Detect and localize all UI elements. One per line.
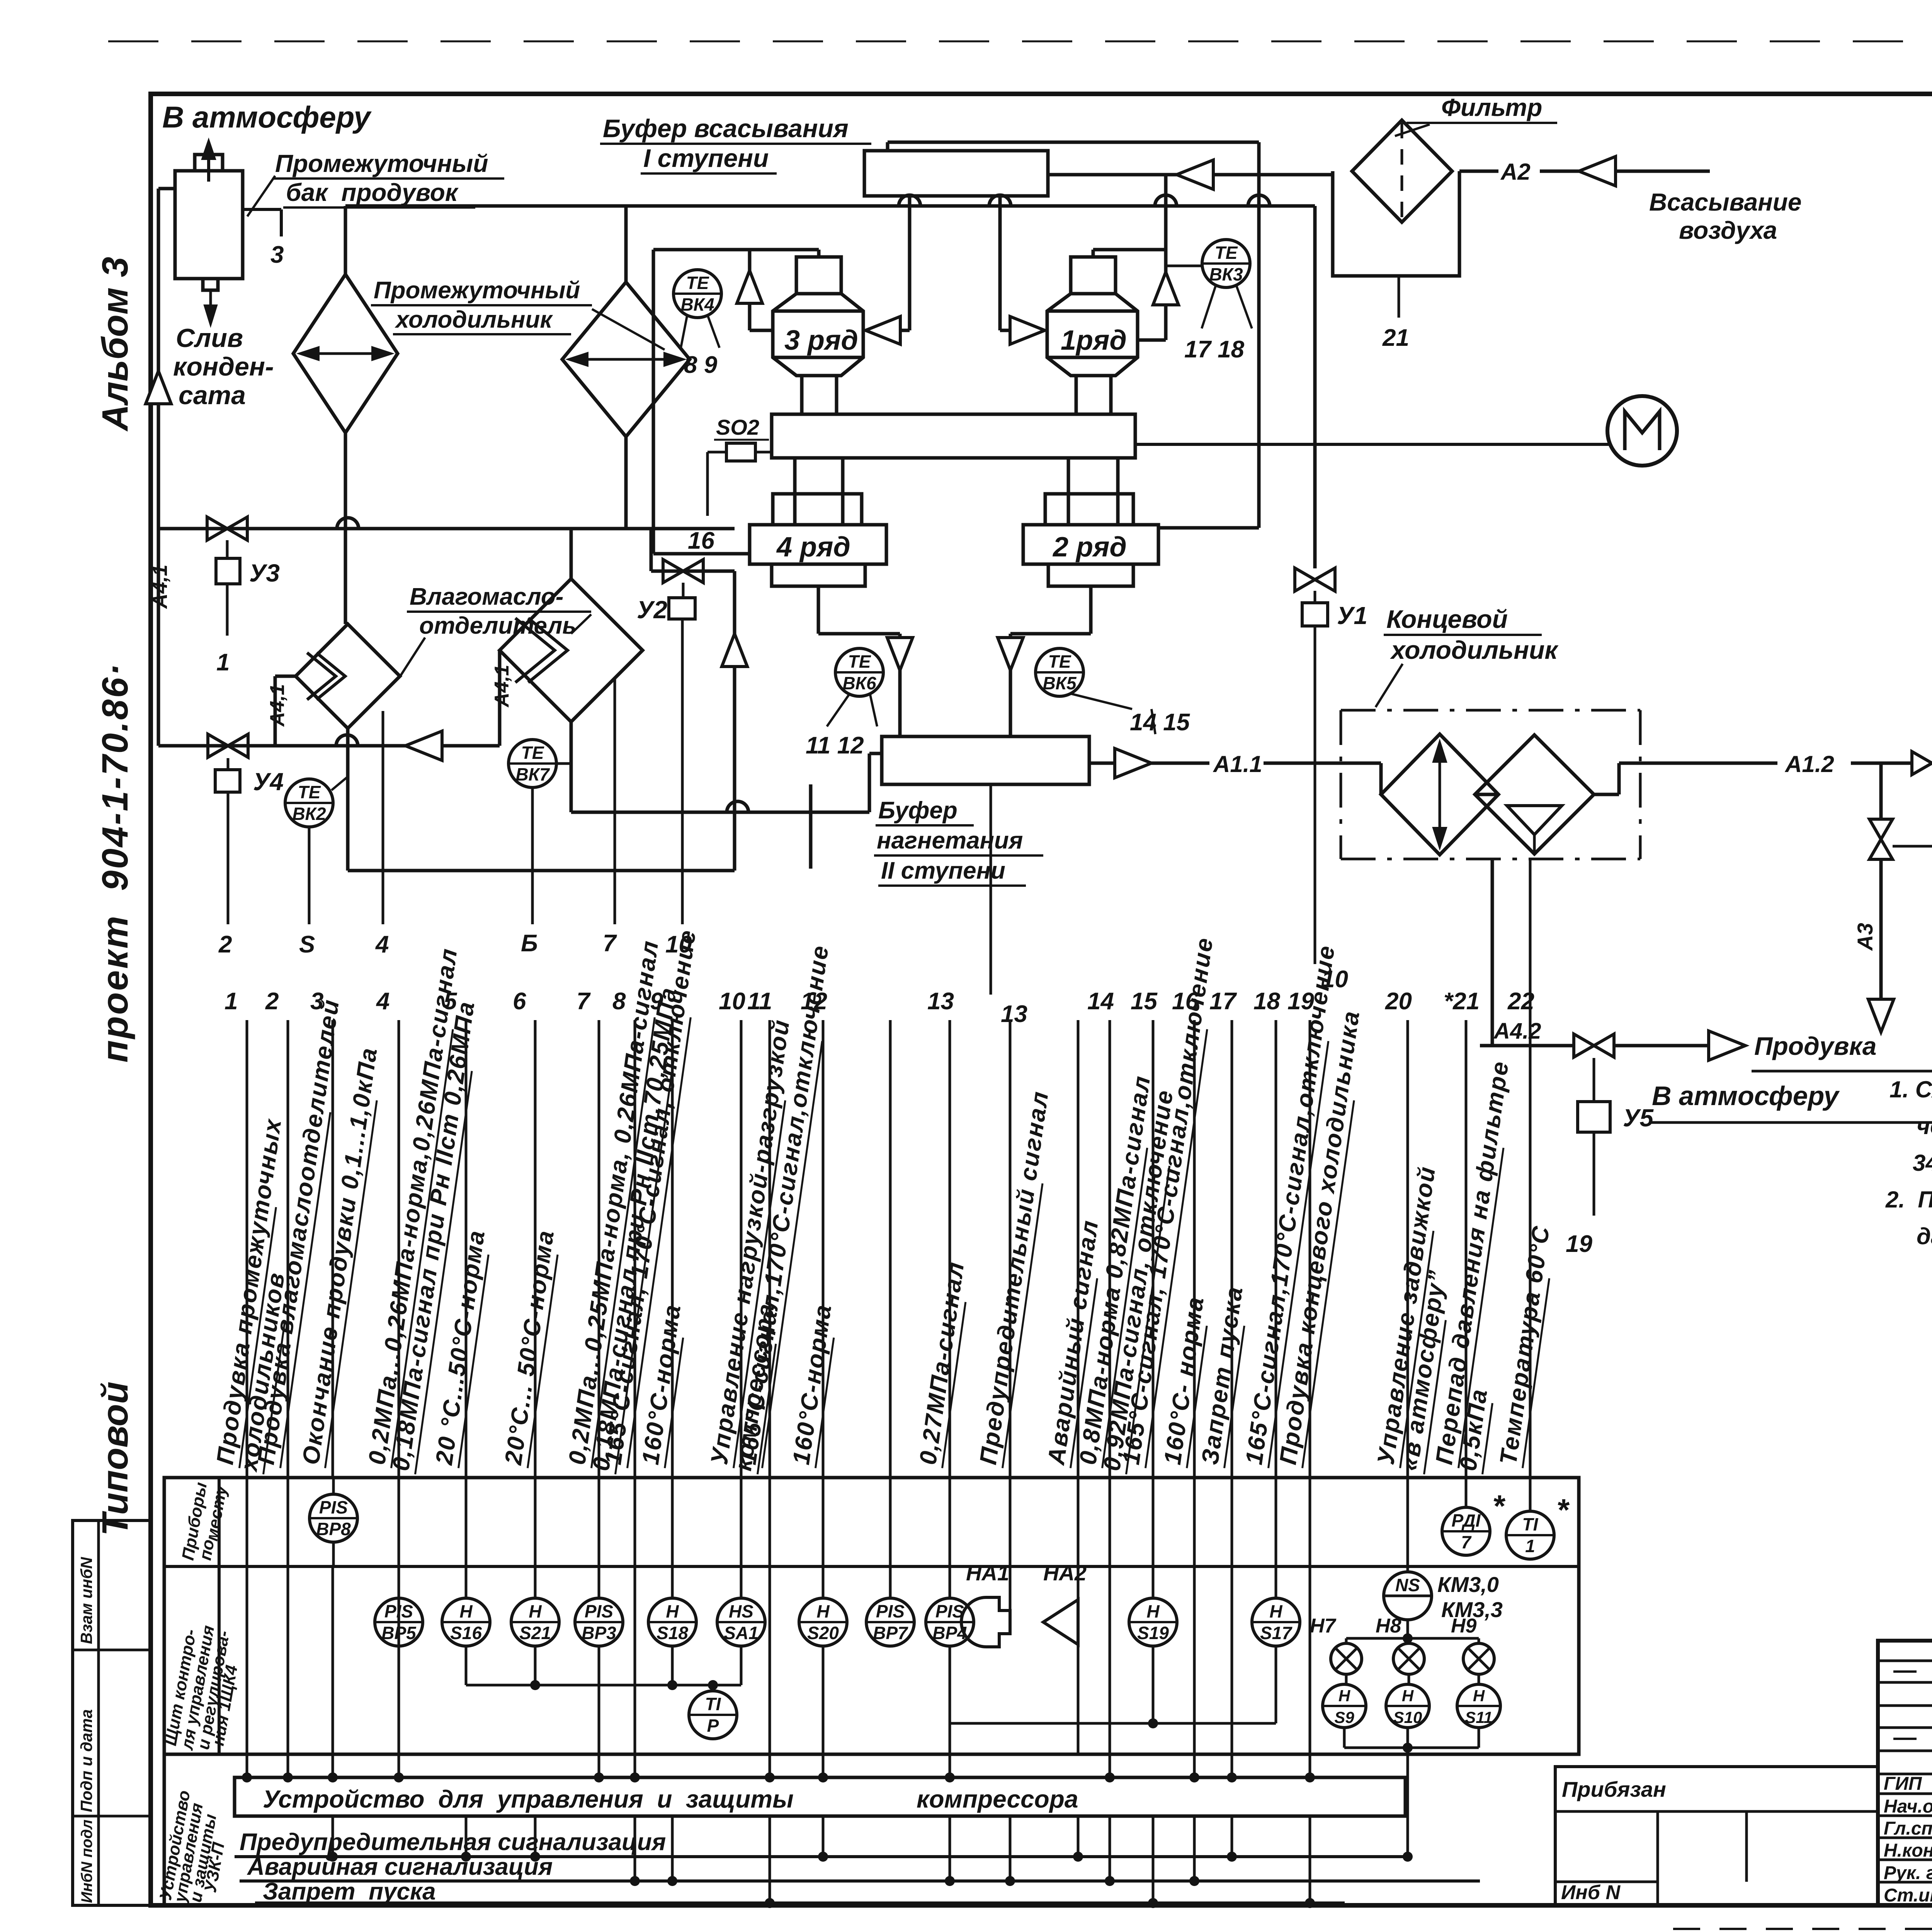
end cooler diamond 2 separator [1475, 735, 1594, 854]
signal column x3091 line [1193, 1020, 1196, 1478]
row2 instrument Н S16 [442, 1598, 490, 1646]
svg-text:ТЕ: ТЕ [686, 273, 709, 293]
wire x3390 to bus [1309, 1816, 1311, 1903]
svg-text:S16: S16 [450, 1623, 482, 1643]
svg-text:II ступени: II ступени [881, 857, 1005, 884]
pipe A4.2 [1480, 1044, 1574, 1048]
svg-text:Р: Р [707, 1716, 719, 1736]
svg-text:S17: S17 [1260, 1623, 1293, 1643]
row1 instrument TI 1 [1506, 1511, 1554, 1559]
valve atmosphere [1869, 819, 1893, 859]
cylinder 4 ryad lower rect [772, 564, 865, 586]
svg-text:Предупредительная сигнализация: Предупредительная сигнализация [240, 1829, 666, 1855]
suction buffer I rect [864, 151, 1048, 196]
svg-text:Буфер: Буфер [878, 797, 957, 824]
II stage suction manifold [345, 204, 1315, 208]
svg-text:Фильтр: Фильтр [1441, 94, 1542, 121]
svg-text:РДI: РДI [1452, 1510, 1481, 1531]
buffer II drain [809, 784, 813, 869]
down arrow left into buffer II [817, 586, 820, 634]
row2 feed VR7 [889, 1020, 892, 1566]
wire x1643 to bus [634, 1816, 636, 1881]
filter signal stub 21 [1398, 276, 1400, 318]
signal column x3390 line [1309, 1020, 1311, 1478]
leader to separator 1 [401, 638, 425, 675]
wire x2130 to bus [822, 1816, 825, 1857]
signal column x3390 label [1274, 1009, 1366, 1468]
svg-text:Инб N: Инб N [1561, 1881, 1621, 1904]
svg-text:SО2: SО2 [716, 415, 759, 439]
actuator box U1 [1302, 603, 1328, 626]
lamp group bottom bus [1343, 1728, 1346, 1748]
title block change rows [1878, 1660, 1932, 1662]
svg-text:ТЕ: ТЕ [1048, 651, 1071, 672]
crosshead guide right [1068, 458, 1118, 525]
air intake pipe [1616, 170, 1710, 173]
button H S9 [1345, 1674, 1348, 1685]
svg-text:Запрет пуска: Запрет пуска [263, 1878, 436, 1905]
row2 instrument Н S21 [511, 1598, 559, 1646]
svg-text:17: 17 [1209, 988, 1237, 1015]
svg-text:17 18: 17 18 [1184, 336, 1245, 363]
row2 instrument РIS ВР7 [866, 1598, 914, 1646]
signal column x1992 line [769, 1020, 771, 1478]
stub line 10 right [1314, 626, 1316, 964]
svg-text:*21: *21 [1444, 988, 1480, 1015]
branch to atmosphere [1879, 763, 1883, 819]
svg-text:бак продувок: бак продувок [286, 179, 459, 206]
svg-text:1. Схема выполнена на: 1. Схема выполнена на основании технолог… [1889, 1077, 1932, 1102]
leader to end cooler [1376, 664, 1403, 707]
svg-text:А1.1: А1.1 [1213, 751, 1262, 777]
signal column x745 label [252, 997, 346, 1468]
check arrow on riser [146, 371, 171, 404]
pipe to produvka arrow [1614, 1044, 1725, 1048]
wire column x745 to device box [287, 1566, 289, 1777]
svg-text:ВР7: ВР7 [873, 1623, 908, 1643]
svg-text:Н: Н [1402, 1687, 1414, 1705]
svg-text:6: 6 [513, 988, 526, 1015]
svg-text:А4,1: А4,1 [266, 684, 289, 727]
discharge buffer II rect [882, 736, 1089, 784]
separator 1 left drain [275, 675, 296, 678]
signal column x1643 label [599, 928, 702, 1468]
svg-text:ТЕ: ТЕ [1215, 243, 1238, 263]
row2 instrument Н S20 [799, 1598, 847, 1646]
wire x2458 to bus [949, 1816, 951, 1881]
thermocouple TE VK6 [835, 648, 883, 696]
cylinder 2 ryad lower rect [1048, 564, 1133, 586]
buffer tap left [908, 196, 912, 330]
lamp bus [1406, 1620, 1409, 1638]
signal column x3188 label [1196, 1284, 1250, 1468]
svg-text:данному проекту.: данному проекту. [1917, 1223, 1932, 1249]
separator 2 left drain [498, 650, 502, 746]
motor pipe [1135, 443, 1609, 446]
svg-text:4: 4 [375, 931, 389, 958]
filter diamond [1352, 120, 1452, 222]
tank Promezhutochny bak produvok [175, 171, 243, 279]
svg-text:21: 21 [1382, 325, 1409, 351]
svg-text:Нач.отд: Нач.отд [1884, 1796, 1932, 1817]
svg-text:ВК5: ВК5 [1043, 673, 1077, 693]
svg-text:НА1: НА1 [966, 1561, 1009, 1585]
wire x3188 to bus [1231, 1816, 1233, 1857]
svg-text:Б: Б [521, 930, 538, 957]
cylinder 3 ryad body [773, 294, 863, 376]
thermocouple TE VK7 [509, 740, 556, 787]
crankcase [772, 414, 1135, 458]
stub line 6 [531, 787, 534, 924]
svg-text:9: 9 [650, 988, 663, 1015]
cylinder 3 ryad top rect [796, 257, 841, 294]
svg-text:Прибязан: Прибязан [1562, 1777, 1666, 1801]
actuator box U2 [669, 598, 695, 619]
instrument TI P [689, 1691, 737, 1739]
cylinder 1 ryad top rect [1071, 257, 1116, 294]
downcomer to 4 ryad [652, 250, 655, 554]
stub line 5 [308, 827, 311, 924]
bus connector left [246, 1765, 248, 1777]
wire x2984 to bus [1152, 1816, 1155, 1903]
svg-text:конден-: конден- [173, 352, 274, 381]
svg-text:*: * [1492, 1489, 1506, 1523]
signal column x2872 label [1074, 1073, 1157, 1468]
svg-text:S10: S10 [1393, 1708, 1422, 1726]
valve U1 [1295, 568, 1335, 591]
signal column x3302 label [1240, 943, 1342, 1468]
thermocouple TE VK3 [1202, 240, 1250, 287]
svg-text:Подп и дата: Подп и дата [77, 1709, 95, 1813]
signal column x3188 line [1231, 1020, 1233, 1478]
row2 instrument Н S17 [1252, 1598, 1300, 1646]
leader to tank [247, 176, 275, 216]
discharge manifold 3 ryad [653, 248, 819, 252]
wire x2614 to bus [1009, 1816, 1012, 1881]
svg-text:КМ3,0: КМ3,0 [1437, 1572, 1499, 1597]
svg-text:Ст.инж.: Ст.инж. [1884, 1885, 1932, 1906]
svg-text:14 15: 14 15 [1130, 709, 1190, 736]
wire column x3390 to device box [1309, 1566, 1311, 1777]
svg-text:холодильник: холодильник [1390, 636, 1559, 664]
valve U2 [663, 560, 703, 583]
svg-text:НS: НS [729, 1601, 753, 1621]
signal column x1918 line [740, 1020, 743, 1478]
svg-text:Н8: Н8 [1376, 1615, 1401, 1637]
wires crossing row1 [246, 1478, 248, 1566]
pressure switch SO2 box [726, 443, 755, 461]
left stamp table [73, 1520, 150, 1905]
signal column x1550 label [563, 938, 665, 1468]
flow arrow A2 [1579, 156, 1616, 186]
thermocouple TE VK5 [1036, 648, 1083, 696]
bus S19 S17 [1152, 1646, 1155, 1723]
signal column x1385 label [500, 1228, 561, 1468]
svg-text:Альбом 3: Альбом 3 [95, 257, 136, 432]
svg-text:11: 11 [747, 988, 772, 1015]
crosshead guide left [795, 458, 843, 525]
SO2 to crankcase [755, 451, 772, 454]
svg-text:16: 16 [688, 527, 714, 554]
svg-text:ВК2: ВК2 [292, 804, 326, 824]
signal column x2130 label [787, 1302, 838, 1468]
end cooler boundary [1341, 709, 1640, 712]
row2 instrument Н S19 [1129, 1598, 1177, 1646]
signal column x1032 line [398, 1020, 400, 1478]
svg-text:I ступени: I ступени [643, 144, 769, 172]
motor M [1607, 396, 1677, 466]
signal column x3643 line [1406, 1020, 1409, 1478]
stub line 22 [1529, 859, 1532, 1020]
signal column x1643 line [634, 1020, 636, 1478]
actuator box U4 [215, 770, 240, 792]
cooler 2 top pipe [624, 206, 628, 282]
signal column x2458 line [949, 1020, 951, 1478]
svg-text:А2: А2 [1500, 159, 1531, 185]
privyazan box [1555, 1767, 1878, 1905]
wire x1992 to bus [769, 1816, 771, 1903]
row2 instrument РIS ВР5 [375, 1598, 423, 1646]
down arrow right into buffer II [1089, 586, 1093, 634]
signal column x861 line [332, 1020, 334, 1478]
riser w arrow 3 ryad [748, 250, 752, 330]
svg-text:Буфер всасывания: Буфер всасывания [603, 114, 849, 143]
row2 instrument РIS ВР3 [575, 1598, 623, 1646]
signal column x3960 line [1529, 1020, 1532, 1478]
svg-text:2 ряд: 2 ряд [1052, 532, 1127, 563]
signal column x3794 line [1465, 1020, 1468, 1478]
stub line 10 left [681, 619, 684, 924]
signal column x3960 label [1495, 1224, 1556, 1468]
wire x2872 to bus [1109, 1816, 1111, 1881]
wire column x1992 to device box [769, 1566, 771, 1777]
table bottom region sides [163, 1754, 166, 1905]
actuator box U5 [1578, 1102, 1610, 1132]
filter inlet pipe [1459, 170, 1498, 173]
cooler 2 Promezhutochny kholodilnik [562, 282, 690, 437]
svg-text:19: 19 [1566, 1231, 1592, 1257]
wire column x1032 to device box [398, 1566, 400, 1777]
button H S10 [1408, 1674, 1410, 1685]
svg-text:4 ряд: 4 ряд [776, 532, 850, 563]
svg-text:S11: S11 [1465, 1708, 1493, 1726]
svg-text:Н: Н [816, 1601, 830, 1621]
svg-text:1ряд: 1ряд [1061, 325, 1127, 356]
valve blowdown [1574, 1034, 1614, 1057]
svg-text:Н: Н [1338, 1687, 1351, 1705]
svg-text:2: 2 [218, 931, 232, 958]
signal column x2614 label [975, 1089, 1055, 1468]
svg-text:4: 4 [376, 988, 389, 1015]
svg-text:А4.2: А4.2 [1493, 1019, 1541, 1044]
svg-text:Н: Н [1269, 1601, 1282, 1621]
svg-text:1: 1 [1525, 1536, 1535, 1556]
svg-text:В атмосферу: В атмосферу [1652, 1081, 1840, 1111]
table row divider 1 [164, 1565, 1579, 1568]
2 ryad discharge riser [1158, 526, 1259, 530]
svg-text:А3: А3 [1853, 923, 1877, 951]
riser w arrow 1 ryad [1164, 175, 1168, 340]
signal column x1550 line [598, 1020, 600, 1478]
signal column x3643 label [1372, 1164, 1442, 1468]
svg-text:10: 10 [719, 988, 745, 1015]
valve U1 riser [1313, 206, 1317, 568]
signal column x1032 label [363, 946, 464, 1468]
actuator box U3 [216, 558, 240, 584]
leaders 17 18 [1202, 286, 1216, 328]
pipe to buffer top [888, 141, 1259, 144]
suction arrow 3 ryad [866, 329, 910, 332]
svg-text:ТI: ТI [1522, 1514, 1539, 1534]
svg-text:3 ряд: 3 ряд [784, 325, 858, 356]
svg-text:Н.контр: Н.контр [1884, 1840, 1932, 1861]
wire column x3091 to device box [1193, 1566, 1196, 1777]
signal column x2984 line [1152, 1020, 1155, 1478]
end cooler inlet [1341, 762, 1381, 765]
svg-text:ИнбN подл: ИнбN подл [78, 1820, 95, 1903]
cylinder 2 ryad top rect [1045, 494, 1133, 525]
svg-text:ТЕ: ТЕ [848, 651, 871, 672]
svg-text:Аварийная сигнализация: Аварийная сигнализация [247, 1854, 553, 1880]
row2 instrument РIS ВР4 [926, 1598, 974, 1646]
SO2 stub [707, 451, 726, 454]
svg-text:А4,1: А4,1 [148, 565, 172, 609]
svg-text:ТЕ: ТЕ [298, 782, 321, 802]
filter housing [1333, 171, 1459, 276]
flow arrow to buffer [1177, 160, 1213, 189]
svg-text:Н: Н [1146, 1601, 1160, 1621]
svg-text:Всасывание: Всасывание [1649, 188, 1801, 216]
wire x1206 to bus [465, 1816, 468, 1857]
svg-text:*: * [1556, 1493, 1570, 1527]
signal column x639 label [211, 1116, 288, 1468]
svg-text:Н: Н [529, 1601, 542, 1621]
svg-text:ВК3: ВК3 [1209, 264, 1243, 284]
wire column x639 to device box [246, 1566, 248, 1777]
separator bottoms collector [346, 728, 350, 871]
svg-text:11 12: 11 12 [806, 732, 864, 759]
stub line 2 [227, 792, 230, 924]
signal column x3794 label [1430, 1059, 1515, 1468]
svg-text:нагнетания: нагнетания [877, 827, 1023, 854]
signal column x3091 label [1159, 1294, 1211, 1468]
cooler 1 bottom pipe [344, 433, 347, 624]
svg-text:22: 22 [1507, 988, 1534, 1015]
svg-text:Рук. гр.: Рук. гр. [1884, 1863, 1932, 1883]
signal column x2984 label [1117, 935, 1220, 1468]
1M1 to valve [1893, 845, 1932, 848]
svg-text:8: 8 [612, 988, 626, 1015]
signal column x2614 line [1009, 1020, 1012, 1478]
svg-text:Концевой: Концевой [1386, 605, 1508, 633]
svg-text:Слив: Слив [176, 323, 243, 353]
wire x2790 to bus [1077, 1816, 1080, 1857]
svg-text:Взам инбN: Взам инбN [77, 1556, 95, 1644]
signal column x1992 label [734, 943, 835, 1468]
end cooler internal pipe [1475, 793, 1498, 796]
signal column x1206 line [465, 1020, 468, 1478]
relay NS [1384, 1572, 1432, 1620]
cooler 1 Promezhutochny kholodilnik [293, 274, 398, 433]
svg-text:ВР3: ВР3 [582, 1623, 616, 1643]
svg-text:1: 1 [216, 649, 230, 676]
signal column x2790 label [1043, 1218, 1105, 1468]
svg-text:7: 7 [603, 930, 617, 957]
end cooler outlet [1594, 793, 1619, 796]
signal table outer [164, 1478, 1579, 1754]
svg-text:ТЕ: ТЕ [521, 743, 544, 763]
signal column x639 line [246, 1020, 248, 1478]
svg-text:ВР8: ВР8 [316, 1519, 351, 1539]
blowdown header U3 [158, 527, 735, 531]
svg-text:S9: S9 [1334, 1708, 1354, 1726]
leader to cooler 2 [592, 309, 665, 350]
svg-text:8 9: 8 9 [684, 352, 718, 378]
svg-text:Влагомасло-: Влагомасло- [410, 583, 563, 610]
svg-text:15: 15 [1131, 988, 1158, 1015]
svg-text:7: 7 [577, 988, 591, 1015]
cylinder 1 ryad neck [1076, 376, 1111, 414]
table row divider 2 [164, 1753, 1579, 1756]
separator 2 funnel drain [570, 722, 573, 812]
blowdown header U4 A4.1 [158, 744, 500, 748]
bottom dashed remnant [1673, 1928, 1932, 1930]
signal column x861 label [297, 1045, 384, 1468]
cylinder 1 ryad body [1047, 294, 1138, 376]
signal column x1918 label [706, 1017, 796, 1468]
pipe U2 [651, 570, 735, 573]
wire column x3188 to device box [1231, 1566, 1233, 1777]
arrow to atmosphere bottom [1868, 999, 1894, 1032]
buffer tap right [998, 196, 1002, 330]
svg-text:сата: сата [179, 381, 246, 410]
svg-text:ВК7: ВК7 [515, 764, 550, 784]
suction arrow 1 ryad [1000, 329, 1045, 332]
wire x3091 to bus [1193, 1816, 1196, 1881]
pipe A1.2 [1640, 762, 1777, 765]
drain arrow [204, 305, 217, 325]
tank top neck [195, 155, 223, 171]
end cooler diamond 1 [1381, 734, 1498, 855]
wire column x861 to device box [332, 1566, 334, 1777]
row1 instrument RDI 7 [1442, 1507, 1490, 1555]
thermocouple TE VK2 [285, 779, 333, 827]
svg-text:отделитель: отделитель [419, 612, 577, 639]
svg-text:ВК6: ВК6 [842, 673, 876, 693]
svg-text:NS: NS [1395, 1575, 1420, 1595]
signal column x3302 line [1275, 1020, 1277, 1478]
svg-text:РIS: РIS [585, 1601, 613, 1621]
thermocouple TE VK4 [673, 270, 721, 318]
button H S11 [1478, 1674, 1480, 1685]
pipe buffer to filter [1048, 173, 1333, 177]
svg-text:проект 904-1-70.86·: проект 904-1-70.86· [95, 662, 136, 1063]
svg-text:ческих чертежей альбома: ческих чертежей альбома 1 и чертежа [1917, 1113, 1932, 1139]
VK3 stub [1166, 265, 1202, 267]
svg-text:Типовой: Типовой [95, 1381, 136, 1536]
leaders 8 9 [681, 316, 687, 348]
svg-text:холодильник: холодильник [395, 306, 553, 333]
svg-text:У4: У4 [253, 768, 284, 796]
circle bottom drops to device box [598, 1646, 600, 1777]
svg-text:Н: Н [459, 1601, 473, 1621]
svg-text:А4,1: А4,1 [491, 665, 513, 708]
svg-text:12: 12 [801, 988, 827, 1015]
leader to separator 2 [571, 614, 591, 634]
svg-text:Н: Н [1473, 1687, 1485, 1705]
stub line 19 [1593, 1132, 1595, 1216]
svg-text:S: S [299, 931, 315, 958]
